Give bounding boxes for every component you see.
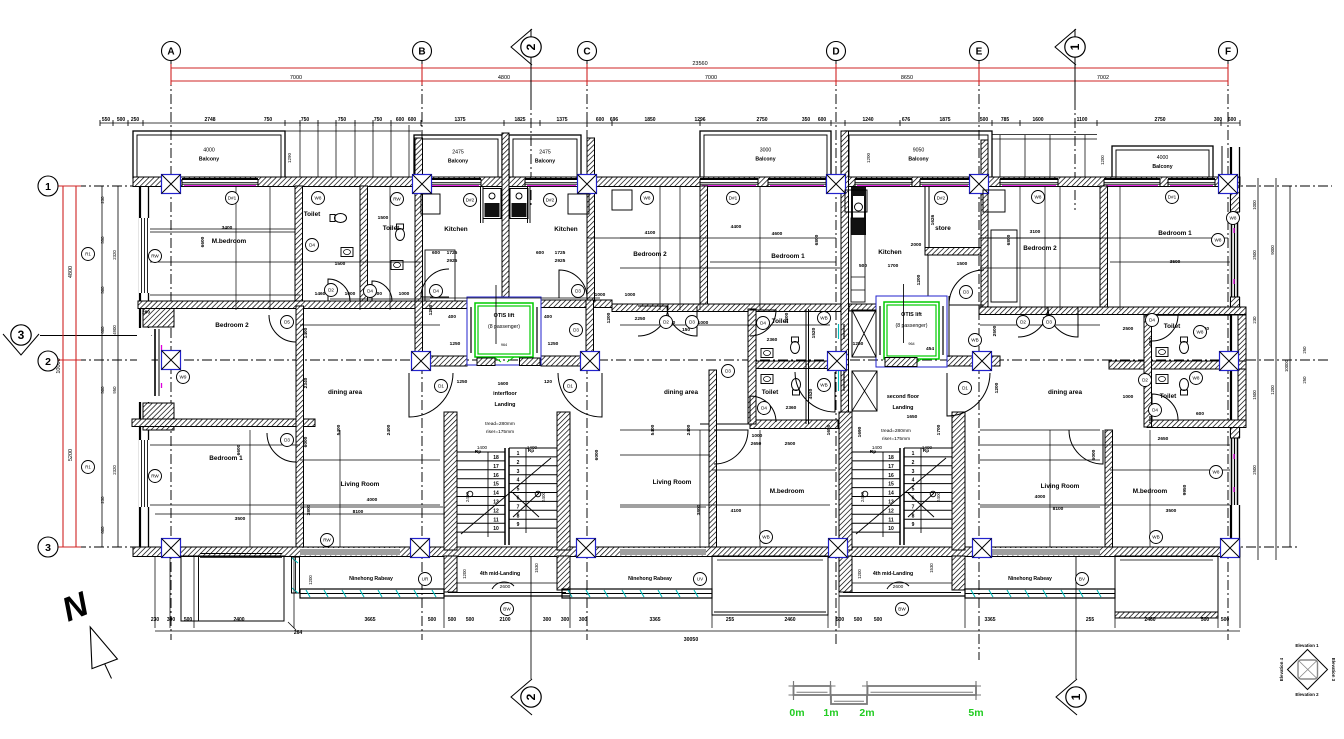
svg-text:750: 750 — [264, 117, 273, 123]
svg-text:RW: RW — [393, 197, 401, 202]
svg-text:1500: 1500 — [378, 215, 389, 221]
svg-text:D4: D4 — [1152, 408, 1158, 413]
svg-text:1200: 1200 — [994, 382, 1000, 393]
svg-text:1400: 1400 — [303, 327, 309, 338]
tread riser text core1 — [485, 421, 515, 435]
svg-text:250: 250 — [1302, 376, 1307, 384]
svg-text:16: 16 — [888, 473, 894, 479]
svg-text:D2: D2 — [328, 288, 334, 293]
svg-text:1690: 1690 — [857, 426, 863, 437]
svg-text:OTIS lift: OTIS lift — [494, 313, 515, 319]
svg-text:2400: 2400 — [541, 491, 546, 502]
svg-text:1650: 1650 — [826, 424, 832, 435]
svg-text:1m: 1m — [823, 707, 838, 719]
north arrow — [57, 584, 118, 678]
svg-text:9000: 9000 — [1270, 245, 1275, 255]
landing text core2 — [887, 394, 920, 411]
wall V between kitchens — [502, 133, 509, 297]
top dim numbers — [102, 117, 1237, 123]
svg-text:14: 14 — [888, 491, 894, 497]
svg-text:2400: 2400 — [465, 491, 470, 502]
svg-text:E: E — [976, 47, 983, 58]
balcony D-E 9050 — [845, 131, 992, 178]
closet bedroom2-4 — [991, 230, 1017, 302]
wall V B-H3 connector — [415, 301, 423, 352]
svg-text:1875: 1875 — [939, 117, 950, 123]
basin toilet2a — [761, 349, 773, 358]
left wall bump upper — [143, 302, 174, 327]
svg-text:3365: 3365 — [649, 617, 660, 623]
kitchen stove side walls — [481, 186, 531, 223]
svg-text:250: 250 — [131, 117, 140, 123]
grid line 3 horizontal — [58, 546, 1300, 548]
svg-text:1600: 1600 — [1032, 117, 1043, 123]
door arc toilet1a D2 — [328, 279, 350, 301]
svg-text:750: 750 — [301, 117, 310, 123]
wall V toilet1 left — [295, 186, 303, 301]
svg-text:2600: 2600 — [893, 584, 904, 590]
dim 264 — [288, 622, 302, 636]
left wall bump lower — [143, 403, 174, 430]
basin toilet1a — [341, 248, 353, 257]
svg-text:1200: 1200 — [462, 569, 467, 579]
svg-text:600: 600 — [596, 117, 605, 123]
right wall windows — [1230, 212, 1241, 505]
grid bubble 1 left — [38, 176, 58, 196]
svg-text:8: 8 — [912, 513, 915, 519]
svg-text:600: 600 — [1228, 117, 1237, 123]
railing 1 — [300, 589, 444, 598]
balcony B-C right 2475 — [509, 135, 581, 178]
svg-text:600: 600 — [818, 117, 827, 123]
svg-text:2000: 2000 — [911, 242, 922, 248]
circled reference labels — [149, 191, 1240, 547]
svg-text:4000: 4000 — [367, 497, 378, 503]
svg-text:3000: 3000 — [760, 148, 772, 154]
svg-text:Ninehong Rabeay: Ninehong Rabeay — [349, 576, 393, 582]
door arc unit2 D3 — [667, 306, 697, 336]
red tick — [835, 64, 837, 85]
door arc unit4 D2 — [1018, 307, 1048, 337]
svg-text:D3: D3 — [963, 290, 969, 295]
svg-text:550: 550 — [100, 236, 105, 244]
svg-text:2: 2 — [517, 460, 520, 466]
svg-text:2: 2 — [45, 356, 51, 368]
top dim chain line — [100, 122, 1240, 124]
svg-text:14: 14 — [493, 491, 499, 497]
svg-text:6800: 6800 — [1006, 234, 1012, 245]
svg-text:8650: 8650 — [901, 75, 913, 81]
svg-text:9: 9 — [517, 522, 520, 528]
svg-text:1200: 1200 — [1270, 385, 1275, 395]
svg-text:600: 600 — [100, 526, 105, 534]
top exterior wall — [133, 177, 1240, 187]
svg-text:1290: 1290 — [287, 152, 292, 163]
wall H2 unit1 — [138, 301, 467, 309]
grid line 2-section vertical bottom — [530, 557, 532, 679]
svg-text:9050: 9050 — [913, 148, 925, 154]
svg-text:1400: 1400 — [872, 445, 883, 450]
svg-text:D4: D4 — [761, 406, 767, 411]
door arc kitchen2 D3 — [559, 270, 587, 298]
wall H2 core1-C — [541, 300, 612, 308]
stairwell core1 — [444, 412, 570, 550]
svg-text:R1: R1 — [85, 252, 91, 257]
svg-text:Bedroom 2: Bedroom 2 — [633, 251, 667, 258]
svg-text:6800: 6800 — [814, 234, 820, 245]
door arc kitchen1 D4 — [421, 269, 449, 297]
wardrobe kitchen1 — [421, 194, 440, 214]
svg-text:4: 4 — [517, 478, 520, 484]
balcony top-left 4000 — [133, 131, 285, 178]
basin toilet2b — [761, 375, 773, 384]
grid line E vertical — [978, 58, 980, 660]
svg-text:1400: 1400 — [922, 445, 933, 450]
svg-text:WB: WB — [762, 535, 769, 540]
svg-text:255: 255 — [726, 617, 735, 623]
stove kitchen1 — [483, 189, 501, 219]
grid line 2-section vertical top — [530, 100, 532, 205]
svg-text:300: 300 — [543, 617, 552, 623]
svg-text:D3: D3 — [689, 320, 695, 325]
interior thin dim lines — [150, 186, 1230, 547]
svg-text:1200: 1200 — [857, 569, 862, 579]
svg-text:Bedroom 2: Bedroom 2 — [215, 322, 249, 329]
svg-text:1250: 1250 — [450, 341, 461, 347]
top dim ticks — [100, 120, 1240, 126]
svg-text:D4: D4 — [367, 289, 373, 294]
wall toilet2 right — [806, 309, 809, 424]
svg-text:Elevation 2: Elevation 2 — [1295, 692, 1319, 697]
svg-text:1100: 1100 — [1077, 117, 1088, 123]
svg-text:2400: 2400 — [233, 617, 244, 623]
svg-text:1000: 1000 — [345, 291, 356, 297]
svg-text:F: F — [1225, 47, 1231, 58]
wardrobe kitchen2 — [568, 194, 589, 214]
svg-text:BW: BW — [898, 607, 906, 612]
svg-text:D2: D2 — [1142, 378, 1148, 383]
column B1 — [413, 175, 432, 194]
wall H4 unit4 — [1147, 420, 1246, 428]
svg-text:2925: 2925 — [447, 258, 458, 264]
WC toilet2b — [792, 379, 801, 396]
svg-text:18: 18 — [493, 455, 499, 461]
circle BW bay2 — [896, 603, 909, 616]
svg-text:tread=280mm: tread=280mm — [485, 421, 515, 427]
svg-text:1250: 1250 — [853, 341, 864, 347]
tread riser text core2 — [881, 428, 911, 442]
WC toilet2a — [791, 337, 800, 354]
svg-text:500: 500 — [1221, 617, 1230, 623]
svg-text:4000: 4000 — [1157, 155, 1169, 161]
svg-text:600: 600 — [536, 250, 544, 256]
svg-text:8: 8 — [517, 513, 520, 519]
svg-text:750: 750 — [338, 117, 347, 123]
svg-text:1: 1 — [1069, 693, 1083, 700]
grid bubble B — [413, 42, 432, 61]
column core1 right — [581, 352, 600, 371]
grid bubble F — [1219, 42, 1238, 61]
door arc landing2 left D1 — [795, 372, 835, 412]
svg-text:WB: WB — [820, 316, 827, 321]
svg-text:2748: 2748 — [204, 117, 215, 123]
svg-text:tread=280mm: tread=280mm — [881, 428, 911, 434]
svg-text:500: 500 — [100, 286, 105, 294]
svg-text:600: 600 — [432, 250, 440, 256]
svg-text:Kitchen: Kitchen — [554, 226, 578, 233]
svg-text:D4: D4 — [309, 243, 315, 248]
door arc unit4 D3 — [1048, 307, 1078, 337]
railing text 1 — [349, 573, 431, 586]
wall V store — [925, 186, 929, 296]
door arc unit2 toilet lower D4 — [750, 396, 776, 422]
svg-text:600: 600 — [408, 117, 417, 123]
svg-text:4100: 4100 — [645, 230, 656, 236]
red tick — [421, 64, 423, 85]
svg-text:3100: 3100 — [1030, 229, 1041, 235]
svg-text:230: 230 — [100, 496, 105, 504]
svg-text:5200: 5200 — [68, 449, 74, 461]
svg-text:4th mid-Landing: 4th mid-Landing — [873, 571, 913, 577]
door arc bedroom1 unit1 D3 — [267, 433, 296, 462]
wall landing2-kitchen — [948, 296, 950, 357]
wall V C-H3 connector — [586, 300, 594, 352]
svg-text:500: 500 — [117, 117, 126, 123]
red tick — [978, 64, 980, 85]
svg-text:W8: W8 — [1197, 330, 1204, 335]
svg-text:5m: 5m — [968, 707, 983, 719]
column B3 — [411, 539, 430, 558]
red tick — [586, 64, 588, 85]
F wall verticals above — [1213, 146, 1222, 178]
column E3 — [973, 539, 992, 558]
svg-text:Living Room: Living Room — [653, 479, 692, 486]
interior dim numbers — [142, 214, 1209, 522]
bay C unit4 — [1115, 556, 1218, 618]
svg-text:450: 450 — [1148, 416, 1154, 424]
svg-text:4: 4 — [912, 478, 915, 484]
svg-text:2500: 2500 — [1252, 250, 1257, 260]
svg-text:6600: 6600 — [236, 444, 242, 455]
grid bubble 3 left — [38, 537, 58, 557]
svg-text:2: 2 — [912, 460, 915, 466]
svg-text:230: 230 — [100, 196, 105, 204]
wall H3 toilet4 mid — [1109, 361, 1246, 369]
svg-text:1825: 1825 — [514, 117, 525, 123]
balcony B-C left 2475 — [414, 135, 502, 178]
svg-text:11: 11 — [493, 517, 499, 523]
svg-text:1530: 1530 — [534, 563, 539, 573]
svg-text:W8: W8 — [1215, 238, 1222, 243]
svg-text:500: 500 — [448, 617, 457, 623]
svg-text:500: 500 — [859, 263, 867, 269]
bottom overall dim line — [155, 631, 1240, 643]
svg-text:R1: R1 — [85, 465, 91, 470]
svg-text:interfloor: interfloor — [493, 391, 518, 397]
svg-text:1375: 1375 — [454, 117, 465, 123]
svg-text:2460: 2460 — [1144, 617, 1155, 623]
column A2 — [162, 351, 181, 370]
counter kitchen1 — [425, 250, 455, 301]
column E2 — [973, 352, 992, 371]
svg-text:D#1: D#1 — [228, 196, 237, 201]
svg-text:1200: 1200 — [784, 312, 790, 323]
svg-text:A: A — [167, 47, 174, 58]
hatch under elevator2 door — [885, 358, 917, 367]
basin toilet4b — [1156, 375, 1168, 384]
svg-text:Toilet: Toilet — [762, 389, 779, 396]
wardrobe unit2 — [612, 190, 632, 210]
left dim chain — [100, 186, 118, 547]
grid bubble E — [970, 42, 989, 61]
svg-text:2400: 2400 — [860, 491, 865, 502]
svg-text:500: 500 — [874, 617, 883, 623]
svg-text:2360: 2360 — [786, 405, 797, 411]
svg-text:1850: 1850 — [644, 117, 655, 123]
wall H3 right of core2 — [947, 356, 1000, 366]
svg-text:1725: 1725 — [447, 250, 458, 256]
svg-text:1000: 1000 — [752, 433, 763, 439]
wall H3 right of elevator1 — [541, 356, 581, 366]
svg-text:2500: 2500 — [1123, 326, 1134, 332]
svg-text:2460: 2460 — [784, 617, 795, 623]
right exterior wall — [1231, 147, 1240, 547]
svg-text:3365: 3365 — [984, 617, 995, 623]
svg-text:964: 964 — [908, 342, 914, 346]
svg-text:D2: D2 — [1020, 320, 1026, 325]
svg-text:W8: W8 — [1193, 376, 1200, 381]
svg-text:1: 1 — [1068, 43, 1082, 50]
svg-text:Elevation 3: Elevation 3 — [1331, 658, 1336, 682]
svg-text:dining area: dining area — [664, 389, 699, 396]
WC toilet1a — [330, 214, 347, 223]
svg-text:7000: 7000 — [705, 75, 717, 81]
svg-text:10: 10 — [493, 526, 499, 532]
svg-text:3400: 3400 — [222, 225, 233, 231]
door arc unit2 toilet D4 — [750, 310, 776, 336]
door arc unit4 toilet lower D4 — [1152, 394, 1178, 420]
svg-text:RW: RW — [151, 254, 159, 259]
svg-text:9950: 9950 — [1182, 484, 1188, 495]
svg-text:UR: UR — [422, 577, 429, 582]
svg-text:second floor: second floor — [887, 394, 920, 400]
wall H4 unit2 — [750, 420, 838, 429]
wall V at C — [587, 138, 595, 301]
door arc landing1 left D1 — [409, 373, 453, 417]
column C1 — [578, 175, 597, 194]
basin toilet1b — [391, 261, 403, 270]
svg-text:1000: 1000 — [1123, 394, 1134, 400]
door arc mbed2 unit2 — [714, 430, 748, 464]
svg-text:3: 3 — [912, 469, 915, 475]
grid line 1-section vertical top — [1074, 100, 1076, 210]
svg-text:7002: 7002 — [1097, 75, 1109, 81]
svg-text:Balcony: Balcony — [199, 157, 219, 163]
room labels — [209, 211, 1192, 495]
svg-text:1400: 1400 — [527, 445, 538, 450]
svg-text:5: 5 — [517, 487, 520, 493]
svg-text:1000: 1000 — [595, 292, 606, 298]
svg-text:2500: 2500 — [992, 325, 998, 336]
svg-text:1700: 1700 — [888, 263, 899, 269]
svg-text:W9: W9 — [180, 375, 187, 380]
svg-text:2250: 2250 — [635, 316, 646, 322]
landing text core1 — [493, 391, 518, 408]
grid bubble D — [827, 42, 846, 61]
door arc landing2 right D1 — [947, 373, 990, 416]
svg-text:1626: 1626 — [930, 214, 936, 225]
circle BW bay1 — [501, 603, 514, 616]
wall V unit4 bedroom divider — [1100, 186, 1108, 307]
svg-text:6000: 6000 — [594, 449, 600, 460]
svg-text:500: 500 — [428, 617, 437, 623]
svg-text:2400: 2400 — [386, 424, 392, 435]
svg-text:300: 300 — [167, 617, 176, 623]
svg-text:255: 255 — [1086, 617, 1095, 623]
svg-text:964: 964 — [501, 343, 507, 347]
svg-text:1530: 1530 — [929, 563, 934, 573]
svg-text:Ninehong Rabeay: Ninehong Rabeay — [1008, 576, 1052, 582]
svg-text:2340: 2340 — [303, 377, 309, 388]
door arc toilet1b D4 — [372, 281, 392, 301]
svg-text:7: 7 — [517, 504, 520, 510]
column F2 — [1220, 352, 1239, 371]
wall V unit2 bedroom divider — [700, 186, 708, 304]
flag 2 top stem — [530, 29, 532, 100]
red vert dim line left inner — [75, 186, 77, 547]
grid line 2 horizontal — [58, 359, 1330, 361]
counter kitchen3 — [851, 218, 865, 302]
svg-text:Elevation 1: Elevation 1 — [1295, 643, 1319, 648]
svg-text:W8: W8 — [315, 196, 322, 201]
svg-text:D#1: D#1 — [729, 196, 738, 201]
svg-text:785: 785 — [1001, 117, 1010, 123]
svg-text:500: 500 — [100, 386, 105, 394]
svg-text:2750: 2750 — [1154, 117, 1165, 123]
svg-text:2100: 2100 — [499, 617, 510, 623]
wall H2 kitchen3 — [849, 304, 876, 311]
svg-text:2: 2 — [524, 43, 538, 50]
svg-text:1: 1 — [517, 451, 520, 457]
door arc unit4 toilet D4 — [1152, 315, 1178, 341]
red tick left — [58, 359, 81, 361]
svg-text:WB: WB — [1152, 535, 1159, 540]
elevator E2 (OTIS lift) — [876, 284, 947, 367]
svg-text:1200: 1200 — [916, 274, 922, 285]
svg-text:D#1: D#1 — [1168, 195, 1177, 200]
svg-text:15: 15 — [888, 482, 894, 488]
svg-text:3: 3 — [45, 542, 51, 554]
svg-text:Living Room: Living Room — [1041, 483, 1080, 490]
svg-text:riser=175mm: riser=175mm — [882, 436, 910, 442]
svg-text:WB: WB — [820, 383, 827, 388]
svg-text:15: 15 — [493, 482, 499, 488]
wall V toilet4 left — [1144, 315, 1152, 427]
wall dining2 bottom edge — [700, 423, 750, 425]
left exterior wall — [140, 186, 149, 547]
svg-text:17: 17 — [493, 464, 499, 470]
svg-text:2m: 2m — [859, 707, 874, 719]
grid line A vertical — [170, 58, 172, 640]
svg-text:17: 17 — [888, 464, 894, 470]
red dim line top row2 — [171, 80, 1228, 82]
svg-text:D1: D1 — [567, 384, 573, 389]
svg-text:500: 500 — [1201, 617, 1210, 623]
svg-text:4600: 4600 — [772, 231, 783, 237]
column D2 — [828, 352, 847, 371]
svg-text:30050: 30050 — [684, 637, 699, 643]
svg-text:Landing: Landing — [495, 402, 516, 408]
